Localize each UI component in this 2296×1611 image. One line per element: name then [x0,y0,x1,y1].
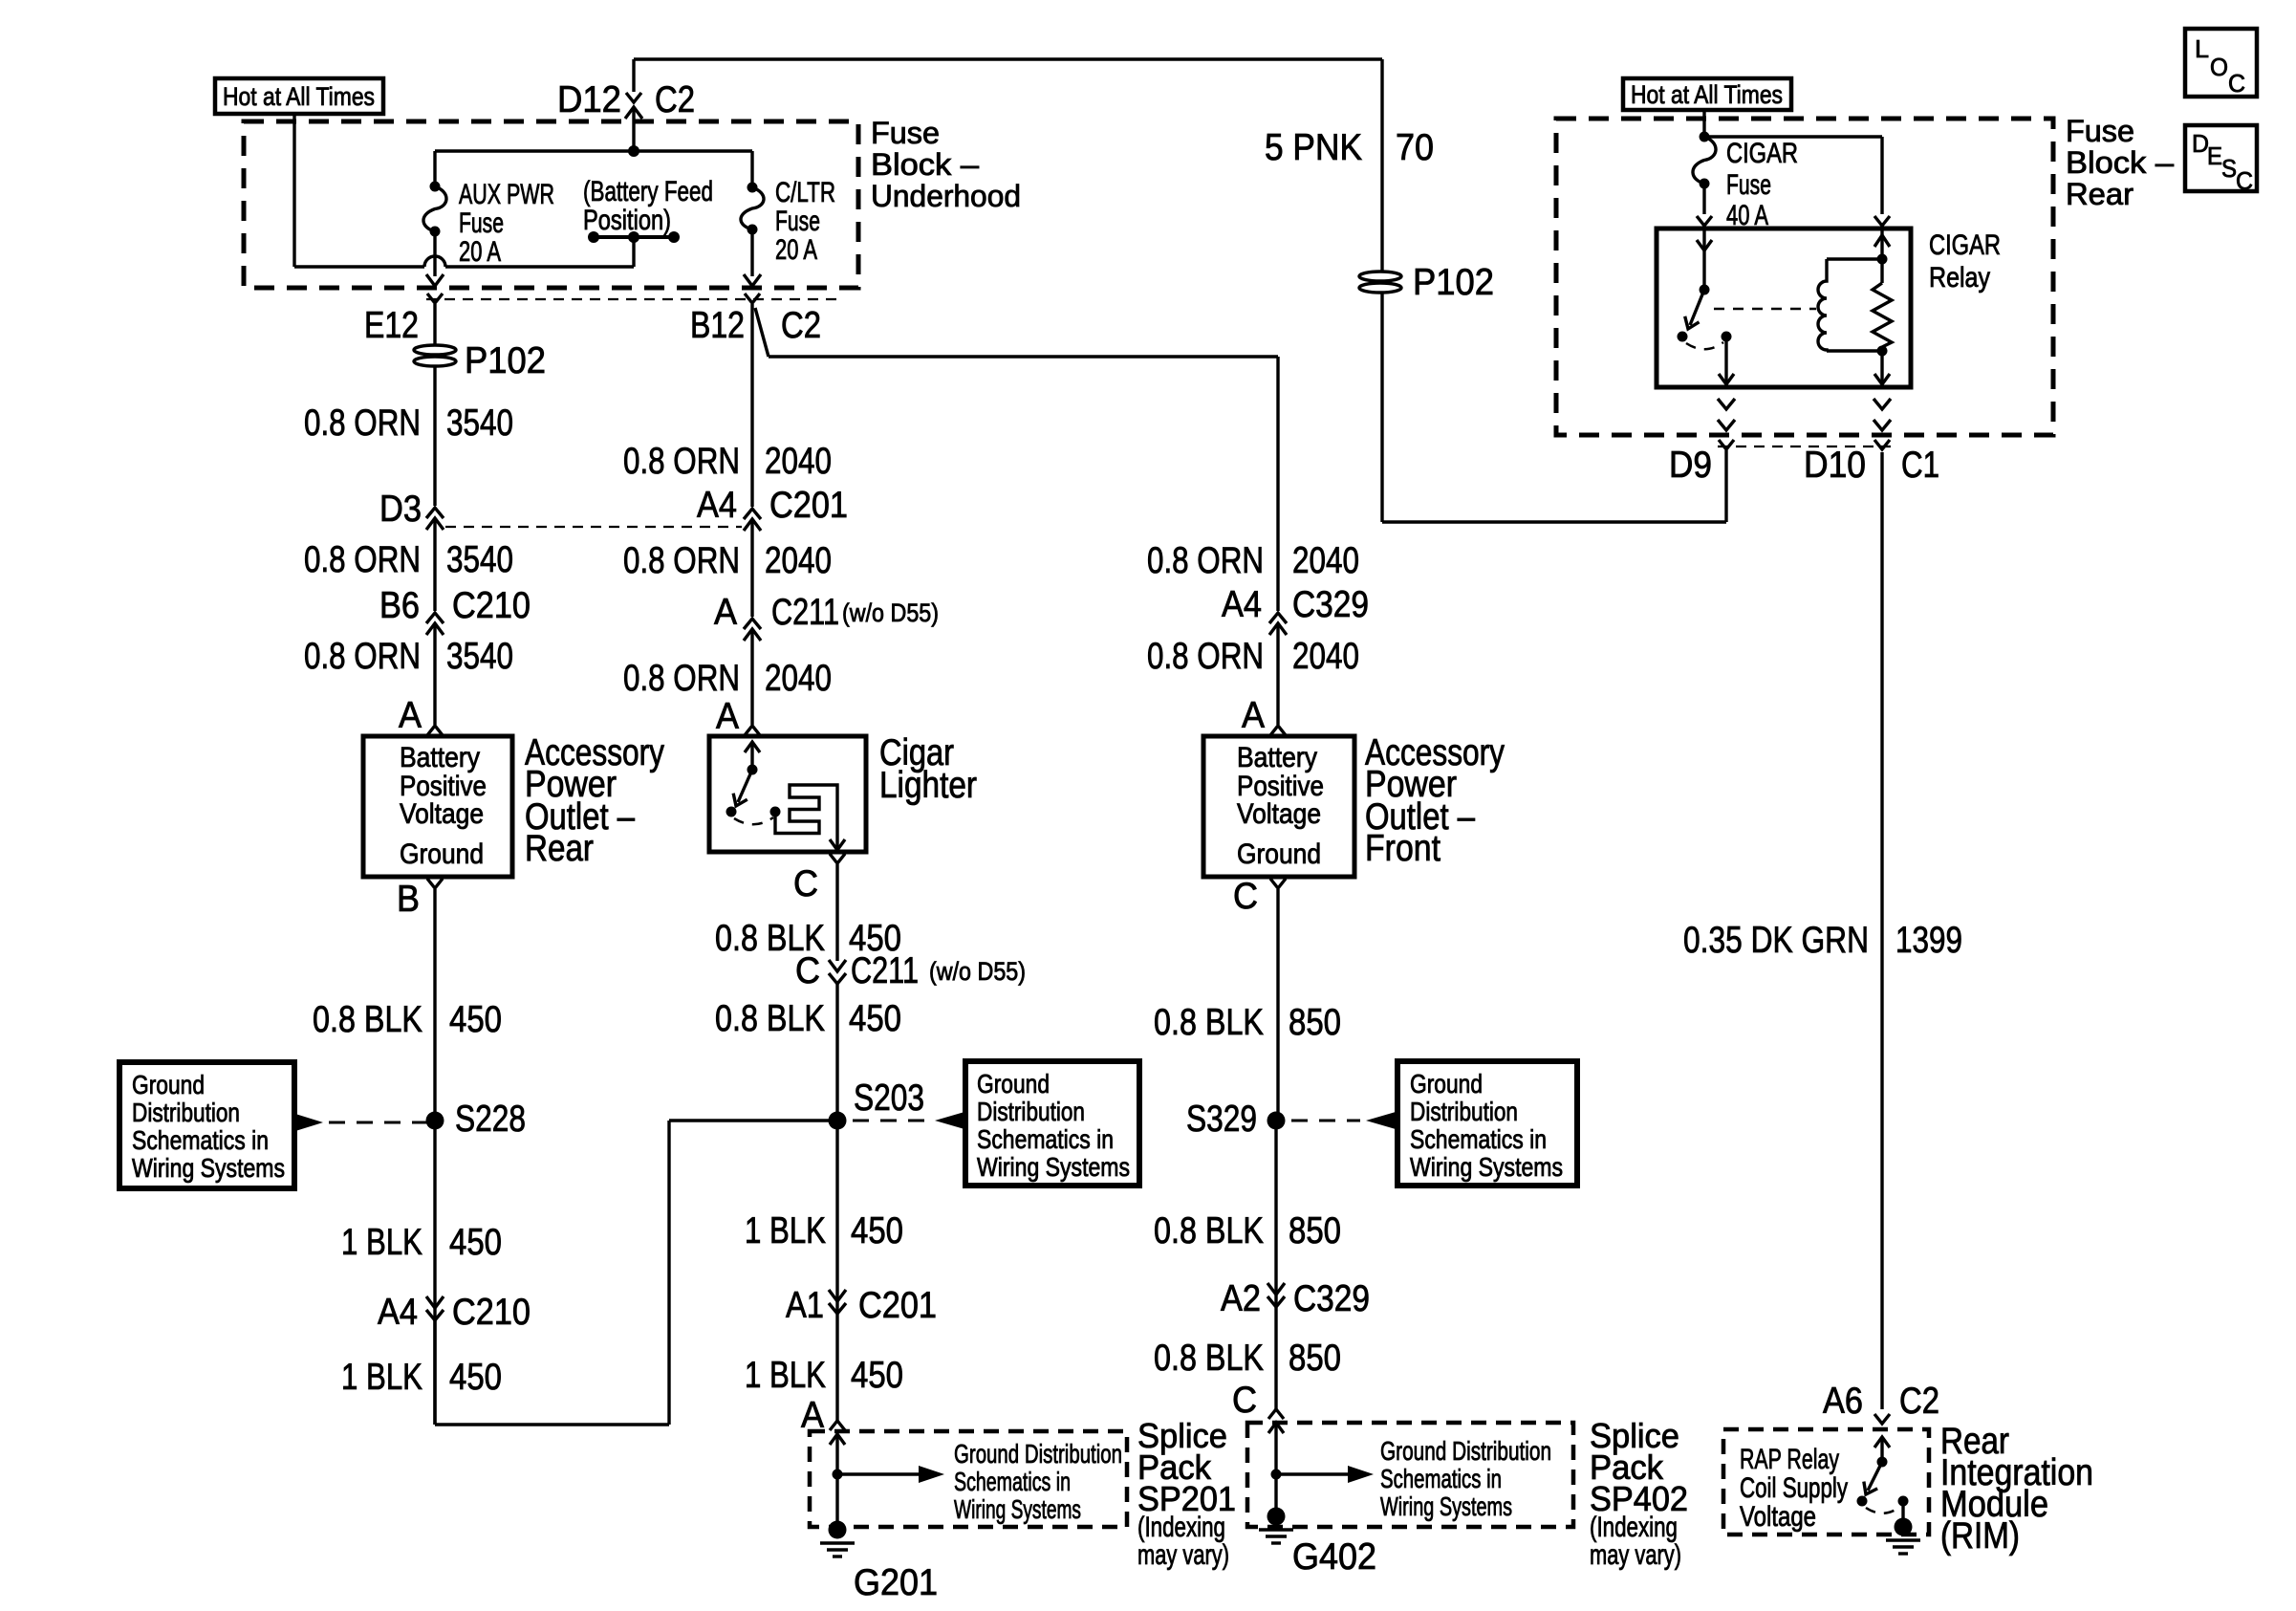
connector B12/C2 (exit) [744,274,761,286]
relay mechanical dashes [1714,308,1816,311]
svg-text:0.8 BLK: 0.8 BLK [1154,1338,1264,1379]
wire: C/LTR output to B12 [750,229,753,276]
svg-text:A: A [714,592,737,633]
connector A1/C201 [829,1290,846,1301]
wire from hot box into rear block [1702,110,1705,137]
wire S329 to SP402 (0.8 BLK 850) [1274,1129,1277,1409]
wire C329 to outlet A (0.8 ORN 2040) [1276,623,1279,725]
svg-text:Fuse: Fuse [2066,114,2134,148]
svg-text:Voltage: Voltage [400,798,484,830]
wire 0.35 DK GRN [1880,452,1883,1409]
svg-text:A4: A4 [697,485,737,526]
fuse C/LTR 20A [750,151,753,187]
svg-text:A4: A4 [378,1292,418,1333]
svg-text:0.8 ORN: 0.8 ORN [304,539,421,580]
svg-text:1 BLK: 1 BLK [341,1222,422,1263]
connector B12 Y + branch [750,304,753,507]
wire: 5 PNK drop [1380,59,1383,522]
dashed link S329 to GD right box [1291,1120,1360,1122]
svg-text:C: C [1233,876,1258,917]
svg-text:Ground: Ground [400,838,484,870]
box: Ground Distribution (middle) [965,1061,1139,1186]
relay resistor [1880,230,1883,283]
svg-text:Wiring Systems: Wiring Systems [954,1494,1081,1524]
svg-text:(Battery Feed: (Battery Feed [583,176,713,207]
terminal C front outlet [1270,879,1286,888]
dashed link S203 to GD middle box [853,1120,929,1122]
svg-text:450: 450 [851,1355,903,1396]
wire: riser from Hot at All Times into fuse block [292,114,295,267]
svg-text:S203: S203 [854,1078,924,1119]
svg-text:D3: D3 [379,489,422,530]
connector into relay (left) [1697,216,1712,226]
connector C/C211 [829,960,846,971]
svg-text:Rear: Rear [2066,177,2134,211]
svg-text:C201: C201 [858,1285,937,1326]
svg-text:450: 450 [449,1222,502,1263]
connector A2/C329 [1267,1283,1285,1295]
svg-text:Ground: Ground [1410,1069,1483,1099]
svg-text:Ground: Ground [977,1069,1050,1099]
arrow from GD box to S228 [295,1114,323,1131]
svg-text:Distribution: Distribution [977,1097,1085,1126]
box: Accessory Power Outlet Front [1203,736,1354,877]
box: Cigar Lighter [709,736,866,852]
svg-text:(w/o D55): (w/o D55) [842,599,939,627]
svg-text:CIGAR: CIGAR [1726,138,1798,169]
splice pack SP402 dashed box [1247,1423,1573,1527]
thin dashed connector line C2 under fuse block [426,298,841,300]
svg-text:2040: 2040 [765,658,832,699]
svg-text:Wiring Systems: Wiring Systems [132,1153,285,1183]
wire cigar C to C211 (0.8 BLK 450) [835,864,838,961]
svg-text:Block –: Block – [871,147,979,182]
svg-text:Rear: Rear [525,828,594,869]
svg-text:Position): Position) [583,205,671,236]
svg-text:C2: C2 [781,305,821,346]
terminal A front outlet [1270,726,1286,735]
fuse CIGAR 40A [1700,132,1710,142]
svg-text:Lighter: Lighter [879,765,977,806]
svg-text:850: 850 [1289,1002,1341,1043]
svg-text:C: C [2236,166,2253,195]
svg-text:P102: P102 [1413,262,1494,303]
RIM dashed box [1723,1429,1929,1535]
svg-text:(w/o D55): (w/o D55) [929,957,1026,986]
wire CIGAR fuse to relay [1702,184,1705,214]
svg-text:Fuse: Fuse [775,206,820,237]
svg-text:A: A [1242,695,1265,736]
svg-text:1 BLK: 1 BLK [745,1210,826,1252]
svg-text:Hot at All Times: Hot at All Times [1631,80,1783,109]
connector A6/C2 [1874,1414,1890,1424]
DESC box [2185,125,2257,191]
svg-text:450: 450 [449,999,502,1040]
svg-text:Schematics in: Schematics in [977,1124,1114,1154]
svg-text:Fuse: Fuse [1726,169,1771,201]
svg-text:Ground: Ground [132,1070,205,1099]
svg-text:Battery: Battery [400,742,480,773]
svg-text:5 PNK: 5 PNK [1265,127,1362,168]
svg-text:Underhood: Underhood [871,179,1021,213]
wire: run to D9 [1382,520,1726,523]
node S329 [1267,1112,1286,1130]
terminal A cigar lighter [745,726,760,735]
connector D12/C2 (entry) [626,93,641,102]
svg-text:3540: 3540 [446,403,513,444]
svg-text:Hot at All Times: Hot at All Times [223,82,375,111]
splice pack SP201 dashed box [810,1431,1127,1527]
node S228 [426,1112,444,1130]
wire: branch to front outlet column [755,308,769,357]
svg-text:0.8 BLK: 0.8 BLK [313,999,422,1040]
cigar lighter switch [745,742,760,752]
wire C211 to S203 (0.8 BLK 450) [835,984,838,1113]
wire S228 down (1 BLK 450) [433,1129,436,1425]
svg-text:Schematics in: Schematics in [1410,1124,1547,1154]
connector A4/C201 [744,509,761,519]
svg-text:S: S [2221,154,2237,183]
label box: Hot at All Times (left) [215,78,383,114]
svg-text:20 A: 20 A [775,234,817,266]
svg-text:CIGAR: CIGAR [1929,229,2001,261]
wire outlet B to S228 (0.8 BLK 450) [433,889,436,1113]
svg-text:0.8 ORN: 0.8 ORN [623,658,740,699]
grommet P102 (left) [414,345,456,355]
svg-text:B12: B12 [690,305,745,346]
svg-text:C210: C210 [452,1292,531,1333]
svg-text:Relay: Relay [1929,262,1990,294]
svg-text:20 A: 20 A [459,236,501,268]
svg-text:C201: C201 [769,485,848,526]
battery feed link [594,235,674,239]
svg-text:70: 70 [1396,127,1434,168]
svg-text:Fuse: Fuse [459,207,504,239]
fuse block rear dashed box [1556,119,2053,435]
cigar lighter heater element [775,785,837,847]
svg-text:Front: Front [1365,828,1440,869]
svg-text:(RIM): (RIM) [1940,1515,2020,1557]
svg-text:450: 450 [851,1210,903,1252]
svg-text:450: 450 [449,1357,502,1398]
terminal B rear outlet [427,879,443,888]
svg-text:Coil Supply: Coil Supply [1740,1472,1848,1504]
svg-text:Ground Distribution: Ground Distribution [954,1439,1122,1469]
svg-text:D10: D10 [1804,445,1866,486]
svg-text:C: C [1232,1380,1257,1421]
wire C211 to cigar lighter A (0.8 ORN 2040) [750,629,753,725]
svg-text:0.8 BLK: 0.8 BLK [1154,1002,1264,1043]
svg-text:0.8 ORN: 0.8 ORN [304,403,421,444]
svg-text:3540: 3540 [446,636,513,677]
svg-text:C/LTR: C/LTR [775,177,835,208]
wire: D12 riser / top run to 5 PNK [634,57,1382,60]
svg-text:C329: C329 [1293,1278,1370,1319]
connector A/C211 [744,619,761,629]
svg-text:Battery: Battery [1237,742,1317,773]
svg-text:850: 850 [1289,1210,1341,1252]
svg-text:C: C [2228,69,2245,98]
SP201 junction + arrow [833,1469,843,1480]
svg-text:Schematics in: Schematics in [954,1467,1071,1496]
svg-text:L: L [2195,34,2209,63]
svg-text:B6: B6 [379,585,420,626]
label box: Hot at All Times (right) [1623,78,1791,110]
terminal A rear outlet [427,726,443,735]
fuse block underhood dashed box [244,121,858,288]
svg-text:C: C [793,863,818,904]
svg-text:A: A [399,695,422,736]
svg-text:Ground Distribution: Ground Distribution [1380,1436,1551,1466]
box: Accessory Power Outlet Rear [363,736,512,877]
svg-text:Wiring Systems: Wiring Systems [977,1152,1130,1182]
svg-text:A4: A4 [1222,584,1262,625]
svg-text:Ground: Ground [1237,838,1321,870]
svg-text:3540: 3540 [446,539,513,580]
connector E12 (exit) [426,274,444,286]
svg-text:Voltage: Voltage [1237,798,1321,830]
svg-text:Distribution: Distribution [1410,1097,1518,1126]
svg-text:D9: D9 [1669,445,1712,486]
svg-text:1 BLK: 1 BLK [745,1355,826,1396]
fuse AUX PWR 20A [433,151,436,186]
svg-text:may vary): may vary) [1137,1539,1229,1571]
connector A4/C329 [1269,613,1287,623]
svg-text:A2: A2 [1221,1278,1261,1319]
svg-text:G201: G201 [854,1562,938,1603]
connector D3 [426,508,444,518]
SP402 junction + arrow [1271,1469,1282,1480]
svg-text:0.8 ORN: 0.8 ORN [623,540,740,581]
connector B6/C210 [426,613,444,623]
svg-text:2040: 2040 [1292,636,1359,677]
thin dashed line D9-D10 [1718,446,1891,447]
svg-text:D12: D12 [557,79,621,120]
svg-text:A6: A6 [1823,1381,1863,1422]
wire B6 to outlet A (0.8 ORN 3540) [433,623,436,725]
connector into SP402 [1268,1409,1284,1419]
node S203 [829,1112,847,1130]
relay coil [1827,257,1882,260]
svg-text:S228: S228 [455,1099,526,1140]
wire: battery feed stem [632,237,635,267]
svg-text:B: B [397,879,420,920]
svg-text:0.8 ORN: 0.8 ORN [1147,636,1264,677]
wire: AUX fuse output to E12 [433,231,436,276]
svg-text:1399: 1399 [1895,920,1962,961]
svg-text:0.8 ORN: 0.8 ORN [304,636,421,677]
svg-text:C211: C211 [771,592,839,633]
relay switch [1697,240,1712,250]
relay box: CIGAR Relay [1657,229,1911,387]
wire outlet C to S329 (0.8 BLK 850) [1276,889,1279,1113]
svg-text:0.8 BLK: 0.8 BLK [715,998,825,1039]
wire S203 to SP201 (1 BLK 450) [835,1129,838,1422]
svg-text:850: 850 [1289,1338,1341,1379]
svg-text:RAP Relay: RAP Relay [1740,1444,1839,1475]
svg-text:C2: C2 [655,79,695,120]
svg-text:C329: C329 [1292,584,1369,625]
svg-text:2040: 2040 [1292,540,1359,581]
node: D12 junction [628,145,639,157]
ground G402 [1274,1474,1277,1509]
svg-text:Schematics in: Schematics in [132,1125,269,1155]
wire D3 to B6 (0.8 ORN 3540) [433,518,436,611]
svg-text:Schematics in: Schematics in [1380,1464,1502,1493]
svg-text:Distribution: Distribution [132,1098,240,1127]
svg-text:C1: C1 [1901,445,1939,486]
connector into SP201 [830,1421,845,1430]
relay exits D9 D10 [1718,399,1735,409]
svg-text:2040: 2040 [765,441,832,482]
svg-text:Wiring Systems: Wiring Systems [1410,1152,1563,1182]
svg-text:Wiring Systems: Wiring Systems [1380,1491,1512,1521]
grommet P102 (right) [1359,272,1401,281]
svg-text:A: A [716,696,739,737]
svg-text:S329: S329 [1186,1099,1257,1140]
svg-text:may vary): may vary) [1590,1539,1681,1571]
LOC box [2185,29,2257,97]
svg-text:1 BLK: 1 BLK [341,1357,422,1398]
wire A4/C201 to A/C211 (0.8 ORN 2040) [750,519,753,617]
fuse bus top edge [435,149,752,152]
connector A4/C210 [426,1296,444,1308]
wire hop over AUX PWR output [424,256,445,267]
svg-text:0.35 DK GRN: 0.35 DK GRN [1683,920,1869,961]
connector D10/C1 [1874,440,1890,449]
svg-text:E12: E12 [364,305,419,346]
svg-text:C2: C2 [1899,1381,1939,1422]
connector D9 [1719,440,1734,449]
RIM ground [1895,1518,1913,1536]
RIM switch [1874,1437,1890,1448]
svg-text:AUX PWR: AUX PWR [459,179,554,210]
svg-text:450: 450 [849,998,901,1039]
svg-text:2040: 2040 [765,540,832,581]
box: Ground Distribution (right) [1397,1061,1577,1186]
svg-text:A1: A1 [786,1285,824,1326]
svg-text:0.8 BLK: 0.8 BLK [1154,1210,1264,1252]
svg-text:C210: C210 [452,585,531,626]
svg-text:Voltage: Voltage [1740,1501,1816,1533]
svg-text:C: C [795,950,820,991]
terminal C cigar lighter pin [830,854,845,863]
wire E12 to D3 (0.8 ORN 3540) [433,304,436,506]
svg-text:C211: C211 [851,950,919,991]
wire: col1 routing to S203 [435,1423,669,1426]
svg-text:P102: P102 [465,340,546,381]
svg-text:0.8 ORN: 0.8 ORN [1147,540,1264,581]
branch to coil side [1704,135,1882,138]
svg-text:Block –: Block – [2066,145,2174,180]
box: Ground Distribution (left) [119,1062,294,1188]
svg-text:Fuse: Fuse [871,116,940,150]
svg-text:O: O [2210,53,2228,81]
svg-text:G402: G402 [1292,1536,1376,1578]
ground G201 [835,1474,838,1522]
svg-text:0.8 ORN: 0.8 ORN [623,441,740,482]
svg-text:E: E [2207,142,2222,170]
thin dashed line D3-A4/C201 [445,526,742,528]
